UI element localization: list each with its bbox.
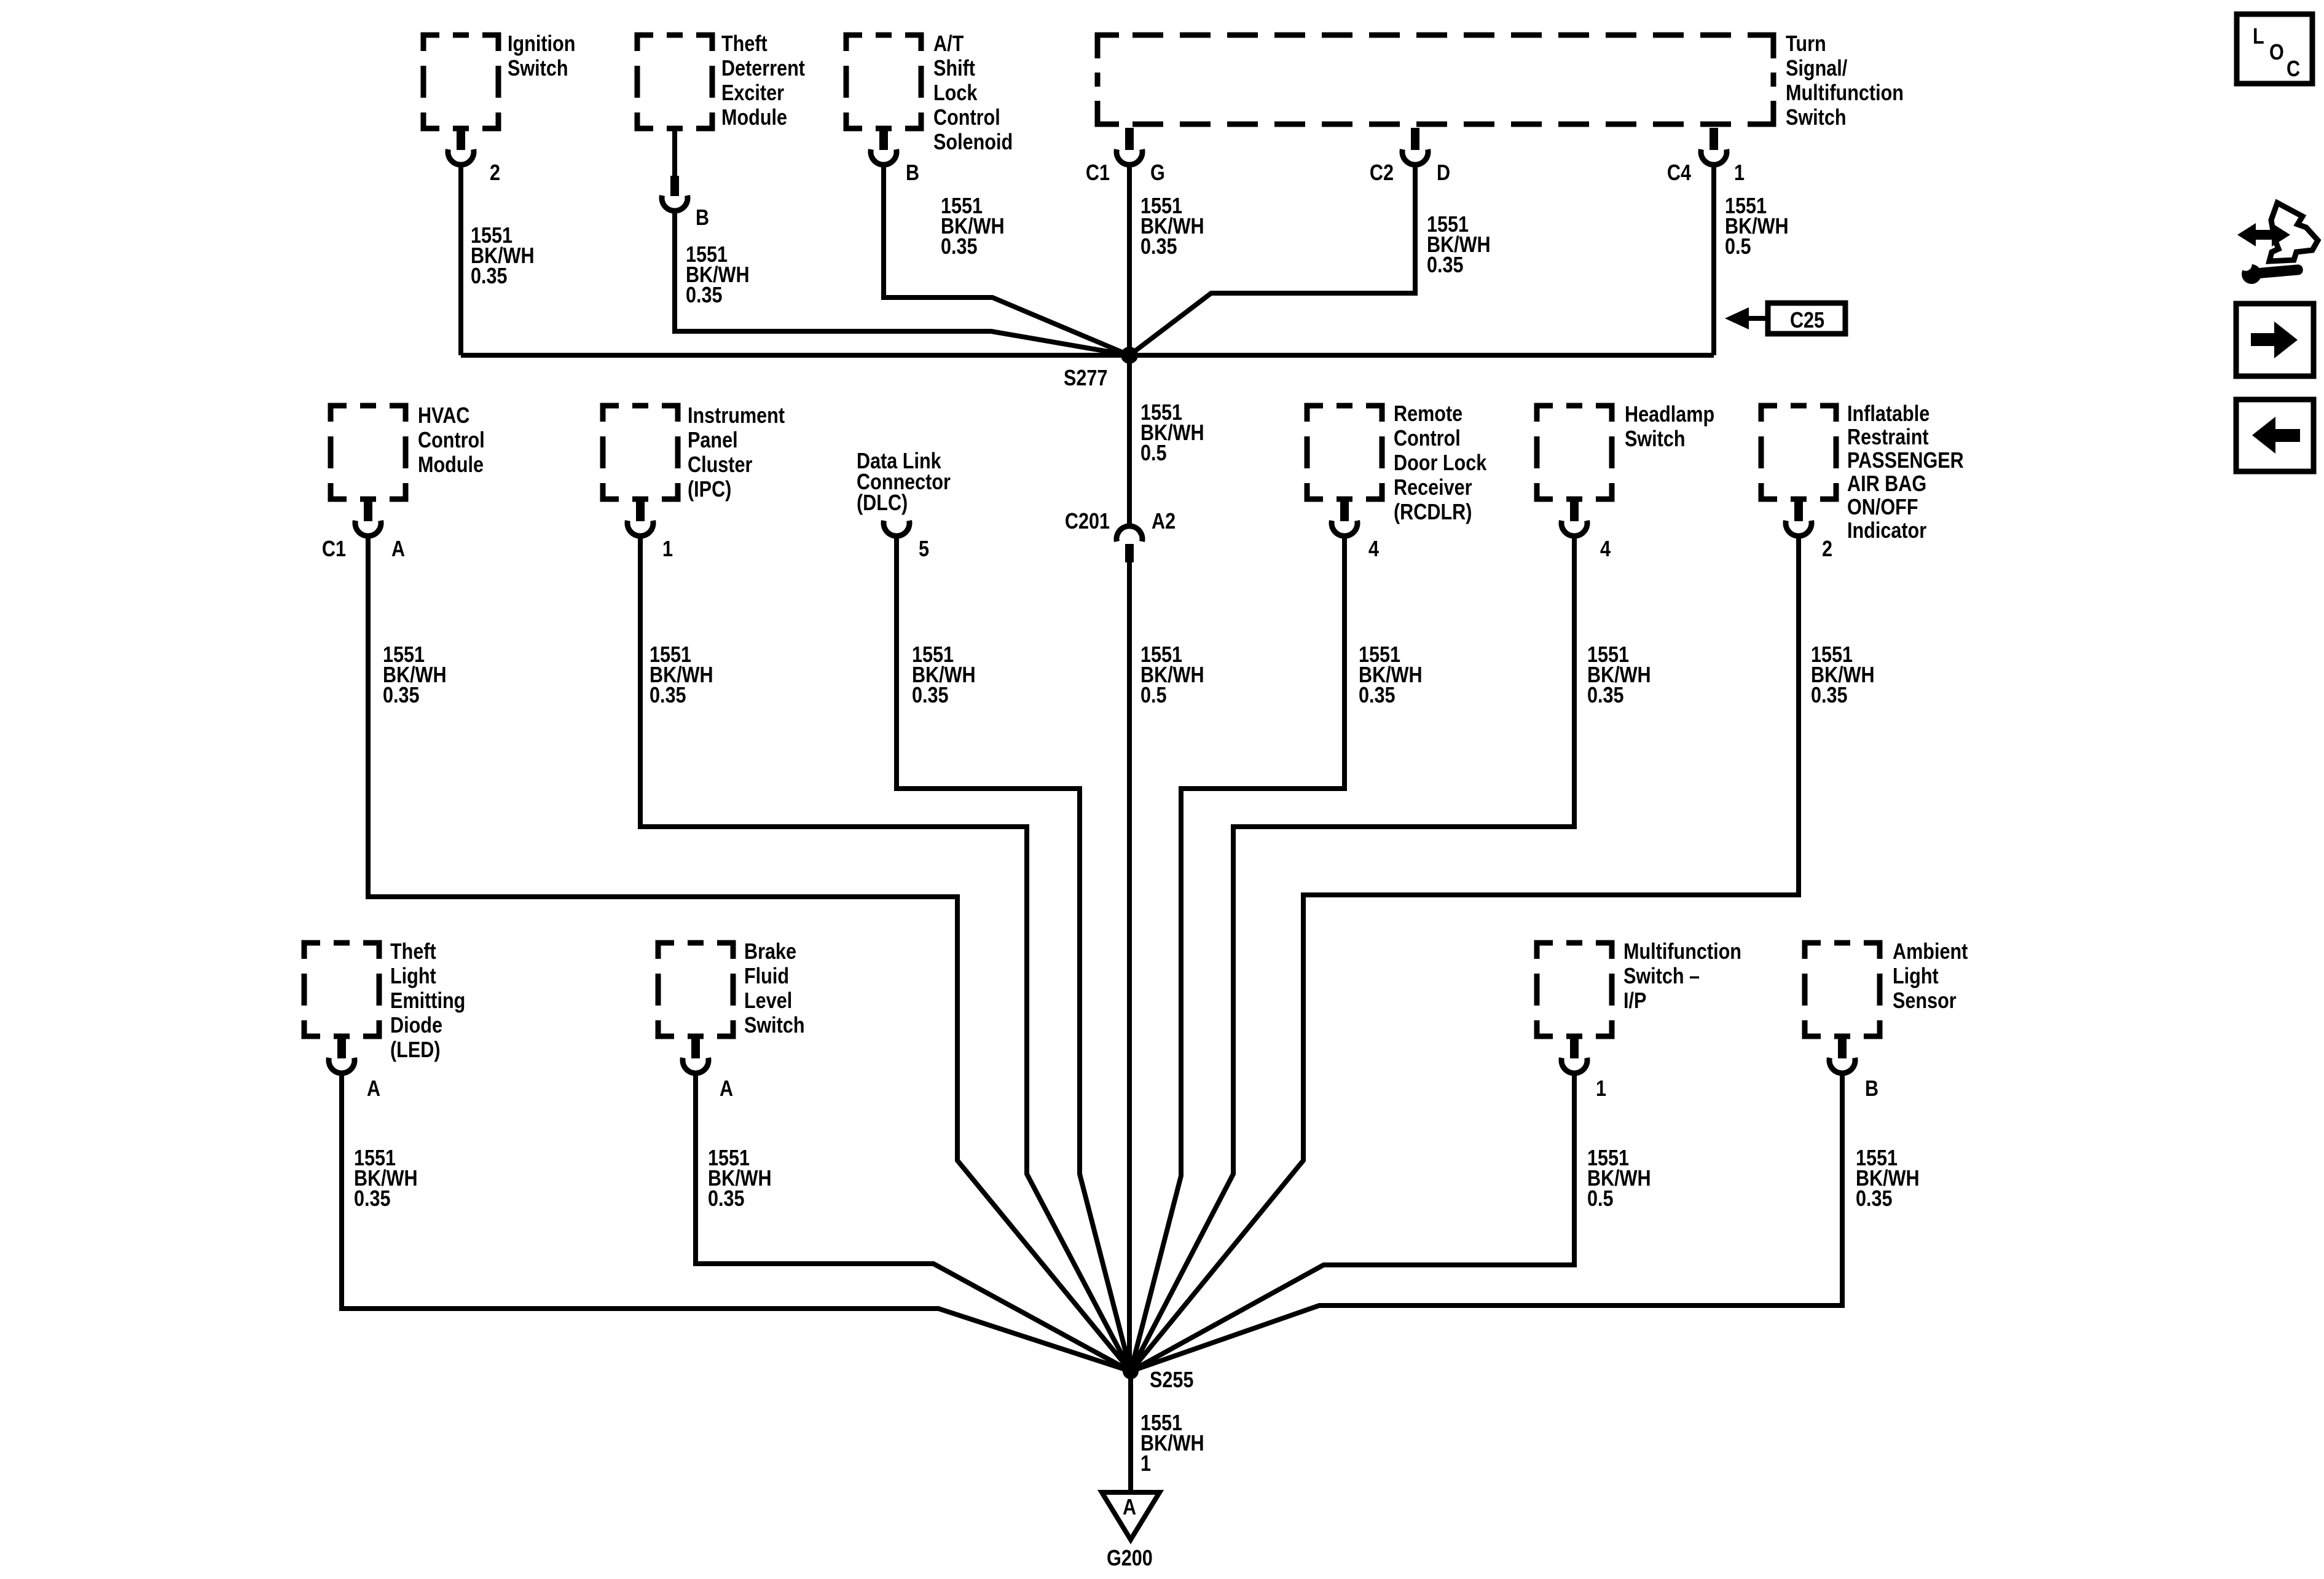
svg-text:1: 1: [662, 537, 673, 562]
svg-text:C2: C2: [1370, 161, 1394, 186]
svg-text:1551BK/WH0.35: 1551BK/WH0.35: [1359, 643, 1423, 708]
svg-text:1551BK/WH0.35: 1551BK/WH0.35: [1587, 643, 1651, 708]
svg-text:TheftDeterrentExciterModule: TheftDeterrentExciterModule: [721, 32, 805, 130]
svg-text:1551BK/WH0.35: 1551BK/WH0.35: [686, 243, 750, 308]
svg-text:A: A: [720, 1077, 733, 1101]
svg-text:1: 1: [1734, 161, 1745, 186]
svg-text:1551BK/WH0.35: 1551BK/WH0.35: [1140, 194, 1204, 259]
svg-text:InstrumentPanelCluster(IPC): InstrumentPanelCluster(IPC): [688, 404, 785, 502]
svg-text:HeadlampSwitch: HeadlampSwitch: [1625, 403, 1714, 452]
svg-text:S277: S277: [1064, 366, 1107, 391]
svg-text:B: B: [1865, 1077, 1878, 1101]
svg-text:A: A: [367, 1077, 380, 1101]
svg-text:2: 2: [490, 161, 500, 186]
svg-text:InflatableRestraintPASSENGERAI: InflatableRestraintPASSENGERAIR BAGON/OF…: [1847, 402, 1964, 543]
svg-text:IgnitionSwitch: IgnitionSwitch: [508, 32, 575, 81]
svg-text:1551BK/WH0.35: 1551BK/WH0.35: [354, 1146, 418, 1211]
svg-text:1551BK/WH0.35: 1551BK/WH0.35: [650, 643, 713, 708]
svg-text:1551BK/WH0.5: 1551BK/WH0.5: [1140, 401, 1204, 466]
svg-text:TurnSignal/MultifunctionSwitch: TurnSignal/MultifunctionSwitch: [1786, 32, 1904, 130]
svg-text:A: A: [391, 537, 405, 562]
svg-text:O: O: [2269, 41, 2284, 65]
svg-text:C4: C4: [1667, 161, 1691, 186]
svg-text:C1: C1: [322, 537, 346, 562]
svg-text:1551BK/WH0.35: 1551BK/WH0.35: [1856, 1146, 1920, 1211]
svg-text:C: C: [2287, 57, 2300, 82]
svg-text:L: L: [2253, 25, 2264, 49]
svg-text:RemoteControlDoor LockReceiver: RemoteControlDoor LockReceiver(RCDLR): [1394, 402, 1487, 525]
svg-text:1551BK/WH0.35: 1551BK/WH0.35: [708, 1146, 772, 1211]
svg-text:AmbientLightSensor: AmbientLightSensor: [1893, 940, 1968, 1014]
svg-text:MultifunctionSwitch –I/P: MultifunctionSwitch –I/P: [1623, 940, 1741, 1014]
svg-text:B: B: [696, 206, 709, 230]
svg-text:1551BK/WH0.35: 1551BK/WH0.35: [1811, 643, 1875, 708]
svg-text:HVACControlModule: HVACControlModule: [418, 404, 485, 478]
svg-text:2: 2: [1822, 537, 1832, 562]
svg-text:G: G: [1150, 161, 1165, 186]
svg-text:1551BK/WH0.35: 1551BK/WH0.35: [912, 643, 976, 708]
svg-text:1551BK/WH1: 1551BK/WH1: [1140, 1411, 1204, 1476]
svg-text:S255: S255: [1150, 1368, 1193, 1393]
svg-text:1551BK/WH0.5: 1551BK/WH0.5: [1725, 194, 1789, 259]
svg-text:C25: C25: [1790, 309, 1824, 333]
svg-text:A: A: [1123, 1495, 1136, 1520]
svg-text:4: 4: [1368, 537, 1379, 562]
svg-text:1551BK/WH0.5: 1551BK/WH0.5: [1587, 1146, 1651, 1211]
svg-text:1551BK/WH0.35: 1551BK/WH0.35: [383, 643, 447, 708]
svg-text:C201: C201: [1065, 510, 1110, 534]
svg-text:B: B: [906, 161, 919, 186]
svg-text:A2: A2: [1152, 510, 1176, 534]
svg-text:1551BK/WH0.5: 1551BK/WH0.5: [1140, 643, 1204, 708]
svg-text:D: D: [1437, 161, 1450, 186]
svg-text:TheftLightEmittingDiode(LED): TheftLightEmittingDiode(LED): [390, 940, 465, 1063]
svg-text:4: 4: [1600, 537, 1611, 562]
svg-text:1551BK/WH0.35: 1551BK/WH0.35: [1427, 213, 1491, 278]
svg-text:BrakeFluidLevelSwitch: BrakeFluidLevelSwitch: [744, 940, 805, 1038]
svg-text:C1: C1: [1086, 161, 1110, 186]
svg-text:1551BK/WH0.35: 1551BK/WH0.35: [941, 194, 1005, 259]
svg-text:A/TShiftLockControlSolenoid: A/TShiftLockControlSolenoid: [933, 32, 1013, 155]
svg-text:1: 1: [1596, 1077, 1606, 1101]
svg-text:5: 5: [919, 537, 929, 562]
svg-text:G200: G200: [1107, 1546, 1153, 1571]
svg-text:Data LinkConnector(DLC): Data LinkConnector(DLC): [857, 449, 951, 516]
svg-text:1551BK/WH0.35: 1551BK/WH0.35: [471, 224, 535, 289]
